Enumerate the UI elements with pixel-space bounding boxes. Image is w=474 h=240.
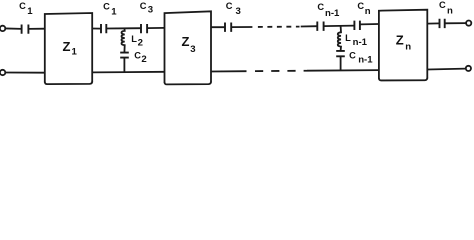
svg-text:n-1: n-1 [358, 55, 373, 66]
svg-text:C: C [134, 51, 141, 61]
svg-text:C: C [103, 2, 110, 12]
svg-text:L: L [345, 33, 351, 43]
svg-text:1: 1 [27, 6, 33, 17]
svg-text:1: 1 [72, 46, 78, 57]
svg-text:n-1: n-1 [325, 8, 340, 19]
svg-text:3: 3 [148, 5, 153, 16]
svg-text:Z: Z [182, 34, 190, 49]
svg-text:3: 3 [236, 6, 241, 17]
svg-text:Z: Z [396, 33, 404, 48]
svg-text:1: 1 [111, 7, 117, 18]
svg-text:L: L [131, 34, 137, 44]
svg-text:C: C [439, 0, 446, 10]
svg-text:n: n [447, 5, 453, 16]
svg-text:Z: Z [63, 39, 71, 54]
svg-text:n: n [405, 42, 411, 53]
svg-text:n: n [365, 6, 371, 17]
svg-text:C: C [140, 1, 147, 11]
svg-text:C: C [357, 1, 364, 11]
svg-text:2: 2 [141, 54, 146, 65]
svg-text:C: C [317, 2, 324, 12]
svg-text:C: C [349, 51, 356, 61]
svg-text:n-1: n-1 [353, 37, 368, 48]
svg-text:2: 2 [138, 38, 143, 49]
svg-text:C: C [19, 1, 26, 11]
svg-text:3: 3 [190, 44, 195, 55]
svg-text:C: C [226, 1, 233, 11]
